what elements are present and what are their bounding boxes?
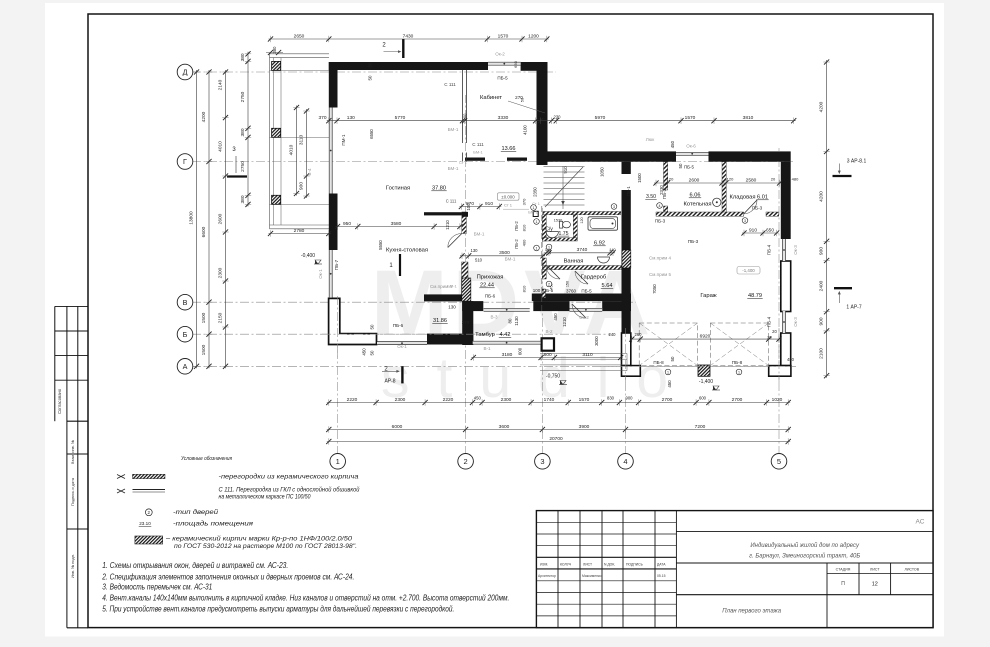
svg-text:650: 650 (766, 227, 774, 233)
svg-text:ПБ-7: ПБ-7 (334, 259, 339, 270)
svg-text:N ДОК.: N ДОК. (604, 562, 615, 566)
svg-text:2750: 2750 (240, 91, 246, 102)
svg-text:В-4: В-4 (307, 168, 312, 176)
svg-text:1: 1 (533, 206, 535, 210)
svg-text:1130: 1130 (514, 316, 519, 326)
svg-text:Ок-2: Ок-2 (495, 52, 505, 57)
svg-text:1 АР-7: 1 АР-7 (846, 305, 862, 311)
svg-text:2: 2 (464, 457, 468, 466)
svg-text:900: 900 (626, 396, 634, 401)
svg-text:С 111: С 111 (444, 82, 456, 87)
svg-text:Кладовая: Кладовая (730, 195, 756, 201)
svg-text:В: В (183, 298, 188, 307)
svg-text:-1,400: -1,400 (742, 268, 755, 273)
svg-text:2700: 2700 (732, 397, 743, 403)
svg-text:Кухня-столовая: Кухня-столовая (386, 248, 428, 254)
svg-text:3810: 3810 (743, 115, 754, 121)
svg-text:2350: 2350 (533, 187, 538, 197)
svg-text:Ок-1: Ок-1 (318, 269, 323, 279)
svg-text:120: 120 (667, 176, 674, 181)
svg-text:БМ-1: БМ-1 (447, 284, 457, 289)
svg-text:450: 450 (667, 380, 672, 388)
svg-text:600: 600 (544, 352, 552, 358)
svg-text:5770: 5770 (395, 115, 406, 121)
svg-text:380: 380 (240, 53, 246, 61)
svg-text:7430: 7430 (403, 33, 414, 39)
svg-text:Кабинет: Кабинет (480, 95, 502, 101)
svg-text:4200: 4200 (201, 111, 207, 122)
svg-text:Тамбур: Тамбур (475, 332, 495, 338)
svg-text:950: 950 (343, 221, 351, 227)
svg-text:Условные обозначения: Условные обозначения (180, 456, 232, 462)
svg-text:БМ-1: БМ-1 (474, 232, 485, 237)
svg-text:П: П (841, 581, 845, 587)
svg-text:Ок-2: Ок-2 (579, 315, 589, 320)
svg-text:ПБ-3: ПБ-3 (655, 219, 666, 224)
svg-text:5550: 5550 (378, 240, 383, 250)
svg-text:БМ-1: БМ-1 (448, 127, 459, 132)
svg-text:830: 830 (607, 396, 615, 401)
svg-text:2580: 2580 (746, 177, 757, 183)
svg-text:Индивидуальный жилой дом по ад: Индивидуальный жилой дом по адресу (750, 542, 860, 549)
svg-text:2300: 2300 (395, 397, 406, 403)
svg-text:±0.000: ±0.000 (501, 194, 515, 199)
svg-text:600: 600 (518, 347, 523, 355)
svg-text:ЛИСТ: ЛИСТ (583, 562, 592, 566)
svg-text:6600: 6600 (201, 226, 207, 237)
svg-text:1500: 1500 (637, 173, 642, 183)
svg-text:230: 230 (554, 115, 562, 120)
svg-text:Ок-3: Ок-3 (793, 245, 798, 255)
svg-text:1050: 1050 (599, 167, 604, 177)
svg-text:1: 1 (536, 220, 538, 224)
svg-text:1200: 1200 (528, 33, 539, 39)
svg-text:370: 370 (522, 198, 527, 205)
svg-text:5: 5 (777, 457, 781, 466)
svg-text:ПБ-5: ПБ-5 (581, 289, 592, 294)
svg-text:3: 3 (540, 457, 544, 466)
svg-text:20700: 20700 (549, 436, 563, 442)
svg-text:1500: 1500 (201, 344, 207, 355)
svg-text:ПБ-4: ПБ-4 (767, 316, 772, 327)
svg-text:2100: 2100 (818, 348, 824, 359)
svg-text:910: 910 (563, 166, 568, 174)
svg-text:6920: 6920 (700, 334, 711, 340)
svg-text:ПБ-3: ПБ-3 (688, 239, 699, 244)
svg-text:2400: 2400 (818, 280, 824, 291)
svg-text:100: 100 (533, 288, 541, 293)
svg-text:ПБ-2: ПБ-2 (514, 221, 519, 231)
svg-text:Ок-6: Ок-6 (686, 144, 696, 149)
svg-text:370: 370 (318, 115, 326, 121)
svg-text:3110: 3110 (298, 135, 304, 146)
svg-text:510: 510 (475, 258, 483, 263)
svg-text:2220: 2220 (443, 397, 454, 403)
svg-text:В-3: В-3 (490, 315, 498, 320)
svg-text:1500: 1500 (201, 312, 207, 323)
svg-text:АР-8: АР-8 (384, 379, 395, 385)
svg-text:3900: 3900 (579, 424, 590, 430)
svg-text:Д: Д (183, 68, 188, 77)
svg-text:Б: Б (183, 330, 188, 339)
svg-text:Взам. инв. №: Взам. инв. № (70, 440, 75, 464)
svg-text:ПБ-3: ПБ-3 (752, 206, 763, 211)
svg-text:120: 120 (727, 176, 734, 181)
svg-text:ПБ-8: ПБ-8 (732, 360, 743, 365)
svg-text:1570: 1570 (685, 115, 696, 121)
svg-text:50: 50 (670, 356, 675, 361)
svg-text:140: 140 (609, 248, 615, 252)
svg-text:1210: 1210 (562, 317, 567, 327)
svg-text:КОЛУЧ: КОЛУЧ (560, 562, 571, 566)
svg-text:– керамический кирпич марки Кр: – керамический кирпич марки Кр-р-по 1НФ/… (165, 536, 353, 543)
svg-text:600: 600 (699, 396, 707, 401)
svg-text:480: 480 (787, 357, 795, 362)
svg-text:С 111: С 111 (472, 142, 484, 147)
svg-text:6550: 6550 (369, 129, 374, 139)
svg-text:7050: 7050 (652, 284, 657, 294)
svg-text:270: 270 (515, 95, 523, 100)
svg-text:В-2: В-2 (545, 329, 553, 334)
svg-text:Согласовано: Согласовано (57, 388, 62, 414)
svg-text:4. Вент.каналы 140х140мм выпол: 4. Вент.каналы 140х140мм выполнить в кир… (102, 592, 509, 602)
svg-text:380: 380 (240, 128, 246, 136)
svg-text:120: 120 (580, 217, 584, 223)
svg-text:05.15: 05.15 (657, 574, 666, 578)
svg-text:В-1: В-1 (483, 346, 491, 351)
svg-text:ПБ-2: ПБ-2 (514, 239, 519, 249)
svg-text:80: 80 (508, 318, 513, 323)
svg-text:3500: 3500 (499, 250, 510, 256)
svg-text:50: 50 (678, 163, 683, 168)
svg-text:1530: 1530 (554, 218, 562, 222)
svg-text:50: 50 (370, 350, 375, 355)
svg-text:ПБ-5: ПБ-5 (684, 164, 694, 169)
svg-text:20: 20 (771, 176, 776, 181)
svg-text:БМ-1: БМ-1 (505, 257, 516, 262)
svg-text:130: 130 (471, 248, 479, 253)
svg-text:А: А (183, 362, 188, 371)
svg-text:-перегородки из керамического: -перегородки из керамического кирпича (219, 474, 360, 481)
svg-text:3000: 3000 (594, 336, 599, 346)
svg-text:910: 910 (485, 201, 493, 207)
svg-text:План первого этажа: План первого этажа (722, 609, 782, 615)
svg-text:2300: 2300 (501, 397, 512, 403)
svg-text:3330: 3330 (498, 115, 509, 121)
svg-text:3: 3 (613, 205, 615, 209)
svg-text:50: 50 (368, 62, 373, 67)
svg-text:ИЗМ.: ИЗМ. (540, 562, 548, 566)
svg-text:2600: 2600 (217, 213, 223, 224)
svg-text:5970: 5970 (595, 115, 606, 121)
svg-text:7200: 7200 (695, 424, 706, 430)
svg-text:-1,400: -1,400 (699, 379, 713, 385)
svg-text:БМ-1: БМ-1 (473, 150, 483, 155)
svg-text:2750: 2750 (240, 161, 246, 172)
svg-text:ПБ-6: ПБ-6 (485, 294, 496, 299)
svg-text:3: 3 (744, 219, 746, 223)
svg-text:С/у: С/у (545, 227, 553, 233)
svg-text:3580: 3580 (391, 221, 402, 227)
svg-text:СТАДИЯ: СТАДИЯ (836, 568, 851, 572)
svg-text:910: 910 (749, 227, 757, 233)
svg-text:2600: 2600 (689, 177, 700, 183)
svg-text:ПБ-5: ПБ-5 (497, 76, 508, 81)
svg-text:2700: 2700 (662, 397, 673, 403)
svg-text:БМ-1: БМ-1 (448, 166, 459, 171)
svg-text:ЛИСТ: ЛИСТ (870, 568, 880, 572)
svg-text:1. Схемы открывания окон, двер: 1. Схемы открывания окон, дверей и витра… (102, 560, 288, 570)
svg-text:2220: 2220 (347, 397, 358, 403)
svg-text:ПБ-4: ПБ-4 (767, 244, 772, 255)
svg-text:ПБ-8: ПБ-8 (653, 360, 664, 365)
svg-text:Ок-3: Ок-3 (793, 317, 798, 327)
svg-text:4200: 4200 (818, 191, 824, 202)
svg-text:2150: 2150 (217, 312, 223, 323)
svg-text:4010: 4010 (288, 144, 294, 155)
svg-text:на металлическом каркасе ПС 10: на металлическом каркасе ПС 100/50 (219, 494, 311, 501)
svg-text:810: 810 (522, 224, 527, 231)
svg-text:1: 1 (336, 457, 340, 466)
svg-text:Гараж: Гараж (700, 293, 716, 299)
svg-text:ПБ-1: ПБ-1 (626, 186, 631, 196)
svg-text:3180: 3180 (502, 352, 513, 358)
svg-text:по ГОСТ 530-2012 на растворе М: по ГОСТ 530-2012 на растворе М100 по ГОС… (174, 543, 357, 550)
svg-text:С 111: С 111 (446, 199, 457, 204)
svg-text:См.прим 4: См.прим 4 (649, 256, 672, 261)
svg-text:2650: 2650 (294, 33, 305, 39)
svg-text:Гостиная: Гостиная (386, 186, 410, 192)
svg-text:ПМ-1: ПМ-1 (341, 134, 346, 146)
svg-text:480: 480 (792, 176, 799, 181)
svg-text:900: 900 (818, 317, 824, 325)
svg-text:4100: 4100 (523, 125, 528, 135)
svg-text:50: 50 (370, 324, 375, 329)
svg-text:50: 50 (368, 75, 373, 80)
svg-text:100: 100 (466, 203, 471, 211)
svg-text:-тип дверей: -тип дверей (173, 509, 219, 516)
svg-text:Ок-1: Ок-1 (397, 344, 407, 349)
svg-text:900: 900 (298, 182, 304, 190)
svg-text:400: 400 (522, 239, 527, 246)
svg-text:1570: 1570 (498, 33, 509, 39)
svg-text:Подпись и дата: Подпись и дата (70, 477, 75, 506)
svg-text:650: 650 (513, 60, 518, 67)
svg-text:Архитектор: Архитектор (538, 574, 556, 578)
svg-text:1210: 1210 (445, 220, 450, 230)
svg-text:1740: 1740 (544, 397, 555, 403)
svg-text:Г: Г (183, 157, 187, 166)
svg-text:3 АР-8.1: 3 АР-8.1 (847, 159, 867, 165)
svg-text:130: 130 (347, 115, 355, 121)
svg-text:С 111. Перегородка из ГКЛ с од: С 111. Перегородка из ГКЛ с однослойной … (219, 487, 361, 494)
svg-text:-площадь помещения: -площадь помещения (173, 521, 254, 528)
svg-text:4: 4 (659, 204, 661, 208)
svg-text:3740: 3740 (577, 247, 588, 253)
svg-text:4010: 4010 (217, 141, 223, 152)
svg-text:studio: studio (381, 346, 695, 410)
svg-text:-0,750: -0,750 (546, 374, 560, 380)
svg-text:Гардероб: Гардероб (581, 275, 607, 281)
svg-text:450: 450 (553, 313, 558, 321)
svg-text:100: 100 (463, 113, 468, 121)
svg-text:450: 450 (670, 140, 675, 148)
svg-text:ПБ-5: ПБ-5 (543, 288, 554, 293)
svg-text:Люк: Люк (646, 137, 655, 142)
svg-text:4200: 4200 (818, 101, 824, 112)
svg-text:1: 1 (667, 370, 669, 374)
svg-text:Инв. № подл.: Инв. № подл. (70, 554, 75, 578)
svg-text:2. Спецификация элементов запо: 2. Спецификация элементов заполнения око… (102, 572, 355, 582)
svg-text:См.прим 5: См.прим 5 (649, 272, 672, 277)
svg-text:370: 370 (462, 320, 470, 325)
svg-text:900: 900 (818, 247, 824, 255)
svg-text:2300: 2300 (217, 267, 223, 278)
svg-text:3600: 3600 (499, 424, 510, 430)
svg-text:г. Барнаул, Змеиногорский трак: г. Барнаул, Змеиногорский тракт, 40Б (749, 552, 860, 559)
svg-text:13800: 13800 (188, 211, 194, 225)
svg-text:450: 450 (362, 348, 367, 356)
svg-text:2: 2 (548, 282, 550, 286)
svg-text:ДАТА: ДАТА (657, 562, 666, 566)
svg-text:5. При устройстве вент.каналов: 5. При устройстве вент.каналов предусмот… (102, 604, 454, 614)
svg-text:3760: 3760 (566, 289, 577, 294)
svg-text:Максименко: Максименко (582, 574, 601, 578)
svg-text:450: 450 (474, 396, 482, 401)
svg-text:2330: 2330 (659, 185, 664, 195)
svg-text:20: 20 (772, 329, 777, 334)
svg-text:810: 810 (522, 285, 527, 292)
svg-text:1570: 1570 (579, 397, 590, 403)
svg-text:Ст 1: Ст 1 (504, 203, 513, 208)
svg-text:Котельная: Котельная (683, 202, 711, 208)
svg-text:3. Ведомость перемычек см. АС-: 3. Ведомость перемычек см. АС-31 (102, 582, 212, 592)
svg-text:380: 380 (240, 195, 246, 203)
svg-text:12: 12 (872, 582, 878, 588)
svg-text:1: 1 (738, 370, 740, 374)
svg-text:260: 260 (635, 332, 643, 337)
svg-text:240: 240 (609, 332, 617, 337)
svg-text:2780: 2780 (294, 228, 305, 234)
svg-text:ПБ-6: ПБ-6 (393, 323, 404, 328)
svg-text:ПОДПИСЬ: ПОДПИСЬ (626, 562, 644, 566)
svg-text:АС: АС (916, 519, 925, 526)
svg-text:Ст 1: Ст 1 (459, 161, 467, 165)
svg-text:Ванная: Ванная (564, 259, 584, 265)
svg-text:23.10: 23.10 (139, 521, 151, 526)
svg-text:1: 1 (536, 246, 538, 250)
svg-text:Прихожая: Прихожая (477, 275, 504, 281)
svg-text:20: 20 (767, 335, 772, 340)
svg-text:1020: 1020 (772, 397, 783, 403)
svg-text:-0,400: -0,400 (301, 253, 315, 259)
svg-text:1: 1 (548, 245, 550, 249)
svg-text:4: 4 (623, 457, 627, 466)
svg-text:3110: 3110 (582, 352, 593, 358)
svg-text:ЛИСТОВ: ЛИСТОВ (904, 568, 919, 572)
svg-text:2140: 2140 (217, 79, 223, 90)
svg-text:130: 130 (448, 305, 456, 310)
svg-text:6000: 6000 (392, 424, 403, 430)
svg-text:150: 150 (566, 281, 570, 287)
